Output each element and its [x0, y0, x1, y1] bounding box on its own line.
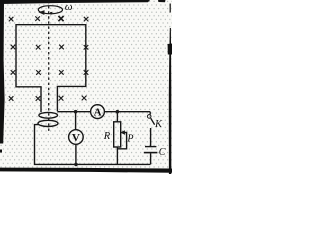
svg-text:P: P — [126, 134, 133, 145]
svg-text:K: K — [154, 119, 163, 130]
svg-text:C: C — [159, 147, 166, 158]
svg-text:V: V — [72, 132, 80, 144]
svg-text:A: A — [94, 107, 102, 119]
svg-text:R: R — [103, 131, 111, 142]
svg-text:ω: ω — [65, 1, 73, 13]
